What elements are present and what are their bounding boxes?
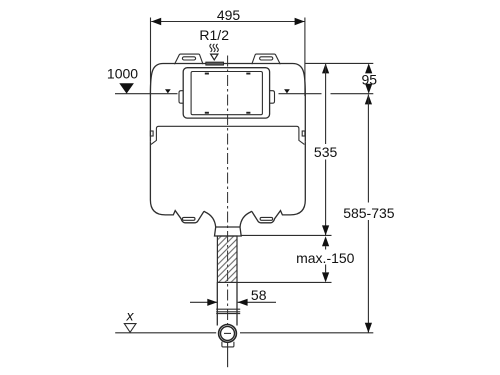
svg-text:x: x [126,308,135,324]
svg-text:95: 95 [362,71,378,87]
svg-text:585-735: 585-735 [343,205,395,221]
svg-text:max.-150: max.-150 [296,250,355,266]
svg-text:495: 495 [217,7,241,23]
svg-text:535: 535 [314,144,338,160]
svg-text:R1/2: R1/2 [199,27,229,43]
svg-text:58: 58 [251,287,267,303]
svg-text:1000: 1000 [107,66,138,82]
